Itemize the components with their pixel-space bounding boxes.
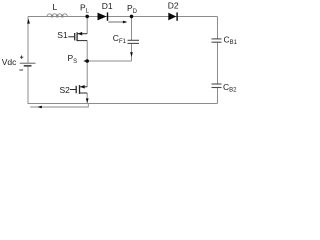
node PS	[85, 59, 89, 63]
wire S1 source to PS	[86, 41, 88, 61]
wire PD to CF1 top	[131, 17, 133, 41]
svg-text:S1: S1	[57, 30, 68, 40]
source Vdc battery short plate	[24, 65, 32, 67]
minus sign	[19, 69, 23, 71]
transistor S2	[70, 85, 87, 94]
svg-text:L: L	[53, 2, 58, 12]
plus sign	[20, 56, 23, 59]
wire CF1 to PS	[87, 60, 131, 62]
capacitor CB2	[212, 84, 222, 88]
inductor L	[47, 14, 67, 17]
svg-text:D1: D1	[102, 1, 113, 11]
diode D2	[168, 12, 177, 20]
wire right rail middle	[217, 42, 219, 84]
wire PL to S1 drain	[86, 17, 88, 34]
wire left rail upper	[27, 17, 29, 63]
current loop line below bottom rail	[30, 104, 88, 107]
wire PS to S2 drain	[86, 61, 88, 87]
current arrow up on left rail	[27, 19, 30, 24]
node PL	[85, 15, 89, 19]
current arrow left into PS	[83, 60, 87, 63]
wire left rail lower	[27, 67, 29, 105]
current arrow down on CF1 lead	[130, 52, 133, 57]
svg-text:S2: S2	[60, 85, 71, 95]
wire right rail upper	[217, 17, 219, 39]
capacitor CF1	[128, 40, 140, 43]
current arrow right under D1	[108, 21, 127, 24]
wire right rail lower	[217, 88, 219, 104]
wire bottom rail	[28, 103, 218, 105]
wire CF1 bottom lead	[131, 43, 133, 61]
wire S2 source to bottom rail	[86, 93, 88, 104]
transistor S1	[68, 32, 87, 41]
node PD	[130, 15, 134, 19]
diode D1	[98, 12, 109, 20]
svg-text:D2: D2	[168, 1, 179, 11]
S1 arrow	[78, 32, 83, 36]
current arrow left on loop line	[37, 106, 42, 109]
wire top rail	[28, 16, 218, 18]
capacitor CB1	[212, 39, 222, 42]
current arrow down on S2 source	[86, 98, 89, 103]
source Vdc battery long plate	[20, 62, 36, 64]
S2 arrow	[80, 85, 85, 89]
svg-text:Vdc: Vdc	[2, 57, 17, 67]
